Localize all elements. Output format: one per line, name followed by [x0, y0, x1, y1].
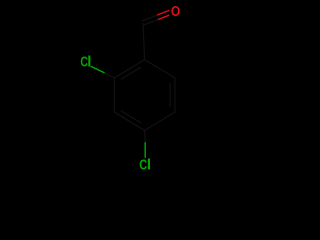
wire: C7=O double bond, lower line black half	[144, 19, 159, 25]
wire: bond C2-Cl green half	[91, 67, 104, 73]
wire: ring bond C6-C1 (single)	[145, 60, 175, 78]
svg-text:l: l	[147, 156, 151, 173]
wire: bond C4-Cl green half	[144, 143, 146, 158]
wire: bond C1-C7 aldehyde stem	[143, 24, 145, 60]
wire: ring bond C1-C2 (double, main line)	[114, 60, 144, 78]
wire: bond C4-Cl black half	[144, 130, 147, 142]
wire: ring bond C5-C6 inner double line	[169, 84, 171, 107]
wire: ring bond C1-C2 inner double line	[121, 67, 141, 79]
wire: bond C2-Cl black half	[104, 73, 114, 78]
wire: ring bond C2-C3 (single)	[113, 78, 115, 112]
wire: ring bond C5-C6 (double, main line)	[174, 78, 176, 112]
wire: ring bond C3-C4 inner double line	[121, 111, 141, 123]
wire: C7=O double bond, upper line red half	[158, 11, 169, 15]
svg-text:O: O	[171, 3, 180, 20]
svg-text:l: l	[87, 54, 91, 71]
wire: ring bond C4-C5 (single)	[145, 112, 175, 130]
wire: C7=O double bond, lower line red half	[158, 15, 168, 19]
wire: C7=O double bond, upper line black half	[142, 15, 157, 21]
wire: ring bond C3-C4 (double, main line)	[114, 112, 144, 130]
